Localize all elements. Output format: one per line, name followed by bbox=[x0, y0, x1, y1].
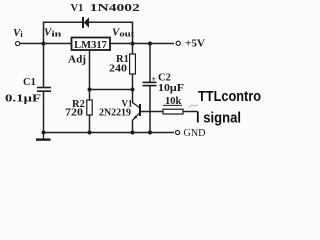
terminal +5V bbox=[176, 41, 180, 45]
svg-text:C2: C2 bbox=[158, 73, 171, 84]
node R1 bottom junction bbox=[131, 88, 135, 92]
node input junction bbox=[42, 42, 46, 46]
svg-text:+: + bbox=[152, 75, 157, 84]
svg-text:LM317: LM317 bbox=[74, 40, 107, 51]
wire R1 to adj node bbox=[132, 74, 134, 90]
node ground junction bbox=[42, 131, 46, 135]
node output junction 1 bbox=[131, 42, 135, 46]
svg-text:1N4002: 1N4002 bbox=[90, 3, 140, 14]
capacitor C2 bbox=[143, 82, 157, 85]
resistor R1 240 body bbox=[130, 54, 136, 74]
node R2 bottom junction bbox=[88, 131, 92, 135]
node C2 bottom junction bbox=[148, 131, 152, 135]
wire R2 bottom bbox=[89, 115, 91, 133]
svg-text:240: 240 bbox=[109, 64, 127, 75]
svg-text:V1: V1 bbox=[71, 3, 84, 14]
op-amp U1 LM317 box bbox=[72, 38, 111, 51]
svg-text:GND: GND bbox=[184, 127, 206, 139]
svg-text:TTLcontro: TTLcontro bbox=[198, 89, 261, 105]
wire R2 top bbox=[89, 90, 91, 101]
ground bbox=[36, 133, 51, 140]
svg-text:0.1µF: 0.1µF bbox=[5, 94, 41, 105]
wire adj horizontal bbox=[90, 89, 133, 91]
svg-text:+5V: +5V bbox=[185, 39, 205, 50]
svg-text:C1: C1 bbox=[23, 77, 36, 88]
wire C1 branch lower bbox=[43, 92, 45, 133]
wire collector bbox=[132, 90, 134, 104]
wire top rail right segment bbox=[89, 22, 133, 43]
svg-text:l signal: l signal bbox=[196, 111, 241, 127]
node output junction 2 bbox=[148, 42, 152, 46]
wire base bbox=[141, 111, 164, 113]
transistor Q1 V1 2N2219 bbox=[133, 103, 141, 120]
svg-text:10µF: 10µF bbox=[158, 83, 184, 94]
wire C2 branch upper bbox=[149, 44, 151, 83]
svg-text:2N2219: 2N2219 bbox=[99, 108, 131, 119]
capacitor C1 bbox=[37, 88, 51, 92]
wire 10k right lead bbox=[183, 111, 198, 113]
wire bottom rail bbox=[44, 132, 175, 134]
wire C2 branch lower bbox=[149, 86, 151, 133]
node adj junction bbox=[88, 88, 92, 92]
svg-text:Adj: Adj bbox=[68, 55, 86, 66]
wire top rail left segment bbox=[44, 22, 84, 43]
resistor R2 720 body bbox=[87, 100, 92, 115]
wire adj pin bbox=[89, 50, 91, 90]
terminal GND bbox=[176, 130, 180, 134]
wire R1 branch bbox=[132, 44, 134, 55]
wire output horizontal bbox=[110, 43, 174, 45]
resistor 10k body bbox=[163, 109, 183, 114]
ghost mark near 10k lead bbox=[189, 105, 198, 108]
diode V1 1N4002 bbox=[83, 17, 89, 28]
wire C1 branch upper bbox=[43, 44, 45, 88]
node emitter junction bbox=[131, 131, 135, 135]
svg-text:720: 720 bbox=[65, 108, 83, 119]
wire input horizontal bbox=[20, 43, 72, 45]
label 10k bbox=[163, 96, 182, 107]
terminal Vi bbox=[16, 41, 20, 45]
wire emitter to rail bbox=[132, 120, 134, 133]
